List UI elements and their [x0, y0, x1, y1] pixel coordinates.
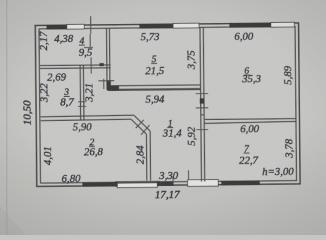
ticks on bottom wall [173, 170, 189, 184]
black pier H1 right end [99, 63, 103, 66]
window bottom room2 [117, 183, 157, 188]
entrance door bottom [188, 180, 219, 187]
wall room4|5 V2 [106, 28, 109, 89]
black pier V2 bottom [107, 80, 111, 90]
window bottom left cap [115, 182, 118, 187]
wall outer top [35, 23, 300, 26]
wall chamfer room2 [131, 115, 150, 134]
wall black segment bottom B [160, 181, 174, 186]
wall black segment top C [229, 23, 270, 28]
wall outer bottom [36, 184, 301, 187]
window bottom right cap [157, 181, 160, 186]
wall room3 right V1 [80, 65, 84, 120]
black pier H2 left [107, 86, 119, 91]
wall black segment bottom C [221, 181, 260, 186]
tick on H2 [98, 79, 114, 90]
wall inner bottom [40, 181, 297, 183]
door cross on chamfer [136, 120, 150, 135]
wall outer right [299, 23, 301, 184]
wall black segment top A [46, 25, 66, 30]
wall room3 bottom H3 [41, 115, 134, 120]
wall black segment bottom A [82, 182, 117, 187]
window top room4 [67, 24, 85, 29]
wall center V4 [200, 27, 205, 181]
tick on top wall [84, 16, 93, 47]
door ticks on V1 [78, 102, 86, 107]
wall outer left [35, 25, 37, 186]
tick on H1 [90, 57, 92, 73]
page edge line left [6, 0, 8, 235]
black pier V4 lower [200, 98, 204, 103]
wall room6|7 H4 [204, 119, 297, 124]
window top room6 [271, 22, 295, 27]
wall room2 right V3 [146, 131, 150, 181]
wall room4 bottom H1 [40, 65, 111, 68]
ticks on V4 [196, 94, 209, 130]
wall inner top [39, 26, 296, 28]
bottom-left shadow [0, 206, 26, 235]
wall inner right [295, 26, 296, 180]
window top room5 [173, 23, 199, 28]
wall inner left [39, 29, 40, 183]
interior paper of plan [35, 23, 300, 187]
wall black segment top B [139, 24, 173, 29]
wall room5 bottom H2 [107, 84, 200, 87]
window bottom lintel line [115, 181, 159, 183]
